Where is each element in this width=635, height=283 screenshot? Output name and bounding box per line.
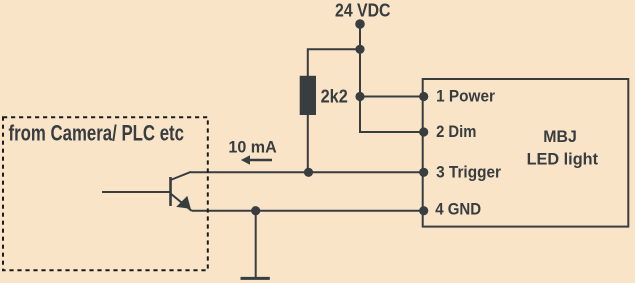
transistor Q1 bbox=[171, 172, 192, 211]
wire to pin 1 Power bbox=[360, 96, 424, 98]
wire resistor bottom lead bbox=[307, 115, 309, 172]
ground bbox=[241, 277, 270, 280]
svg-text:1 Power: 1 Power bbox=[436, 87, 495, 106]
wire branch to resistor top bbox=[308, 49, 360, 76]
junction on 24V rail to pin1 bbox=[355, 92, 364, 101]
wire 24VDC vertical rail bbox=[359, 24, 361, 97]
svg-text:24 VDC: 24 VDC bbox=[335, 1, 391, 21]
pin 4 dot bbox=[419, 206, 428, 215]
wire gnd line bbox=[192, 210, 425, 212]
wire to pin 2 Dim bbox=[360, 97, 424, 133]
svg-text:3 Trigger: 3 Trigger bbox=[436, 162, 501, 181]
junction at resistor branch bbox=[355, 45, 364, 54]
svg-text:2 Dim: 2 Dim bbox=[436, 122, 476, 141]
svg-text:MBJ: MBJ bbox=[543, 127, 577, 146]
current direction arrow bbox=[241, 155, 272, 165]
wire down to ground bbox=[255, 211, 257, 278]
dashed box from Camera/PLC bbox=[3, 117, 208, 270]
resistor R 2k2 bbox=[300, 76, 316, 115]
MBJ LED light box bbox=[423, 79, 629, 227]
svg-text:4 GND: 4 GND bbox=[435, 200, 481, 219]
junction gnd branch bbox=[251, 206, 260, 215]
svg-text:2k2: 2k2 bbox=[321, 86, 348, 106]
wire trigger line bbox=[191, 171, 425, 173]
svg-text:LED light: LED light bbox=[527, 149, 599, 168]
node 24VDC terminal bbox=[355, 19, 365, 29]
transistor Q1 base wire bbox=[102, 191, 171, 193]
pin 2 dot bbox=[419, 127, 428, 136]
junction resistor/trigger bbox=[304, 168, 313, 177]
pin 1 dot bbox=[419, 92, 428, 101]
pin 3 dot bbox=[419, 168, 428, 177]
svg-text:10 mA: 10 mA bbox=[228, 137, 276, 156]
svg-text:from Camera/ PLC etc: from Camera/ PLC etc bbox=[9, 121, 185, 146]
